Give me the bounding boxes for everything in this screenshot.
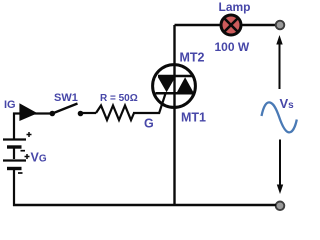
svg-text:G: G	[144, 117, 154, 131]
battery VG cell 2 negative plate	[7, 167, 22, 170]
svg-text:IG: IG	[4, 99, 16, 111]
svg-text:100 W: 100 W	[215, 40, 250, 54]
wire: switch to resistor	[82, 112, 96, 114]
wire: battery top vertical	[13, 113, 15, 140]
current arrow IG	[19, 103, 37, 121]
lamp cross line 1	[225, 19, 238, 32]
wire: bottom return	[13, 204, 276, 206]
triac main vertical lead MT2-MT1	[173, 25, 175, 205]
resistor R = 50 ohm	[96, 106, 134, 121]
svg-text:MT2: MT2	[180, 51, 205, 65]
wire: battery bottom vertical	[13, 169, 15, 206]
battery VG cell 2 positive plate	[3, 159, 26, 161]
triac left thyristor triangle	[158, 77, 176, 92]
supply down arrow head	[277, 185, 283, 195]
svg-text:MT1: MT1	[181, 111, 206, 125]
svg-text:VG: VG	[31, 151, 47, 165]
node: bottom supply terminal	[276, 202, 285, 211]
switch SW1 throw	[78, 111, 84, 117]
wire: gate diagonal lead	[159, 94, 166, 114]
svg-text:SW1: SW1	[54, 92, 78, 104]
triac U1 body circle	[153, 65, 196, 108]
battery VG cell 1 negative plate	[7, 145, 22, 148]
supply up arrow head	[276, 35, 282, 45]
battery cell 1 minus sign	[21, 150, 26, 152]
source sine wave	[262, 102, 297, 132]
supply up arrow shaft	[279, 42, 281, 89]
switch SW1 blade	[52, 104, 77, 114]
svg-text:Lamp: Lamp	[219, 0, 251, 14]
battery cell 2 minus sign	[18, 172, 23, 174]
wire: lamp to top terminal	[242, 24, 276, 26]
lamp body	[221, 15, 241, 35]
battery cell 1 plus sign	[27, 132, 32, 137]
wire: resistor to gate corner	[133, 112, 160, 114]
triac top bar	[158, 75, 194, 78]
triac right thyristor triangle	[177, 77, 194, 92]
wire: battery inter-cell	[13, 148, 15, 159]
switch SW1 pole	[50, 111, 56, 117]
battery VG cell 1 positive plate	[3, 138, 26, 140]
battery cell 2 plus sign	[25, 154, 30, 159]
node: top supply terminal	[276, 21, 285, 30]
svg-text:R = 50Ω: R = 50Ω	[100, 93, 138, 104]
wire: gate drive horizontal left	[13, 112, 52, 114]
triac bottom bar	[156, 92, 194, 95]
wire: top horizontal to lamp	[175, 24, 221, 26]
lamp cross line 2	[225, 19, 238, 32]
supply down arrow shaft	[279, 140, 281, 187]
